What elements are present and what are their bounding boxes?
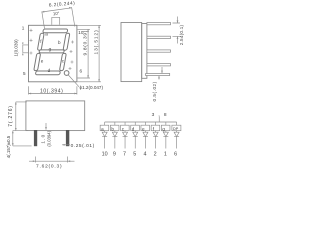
DP diameter callout <box>68 75 103 91</box>
pin pitch dimension 2.54(0.1) <box>173 17 185 46</box>
svg-text:0.5(.02): 0.5(.02) <box>152 81 157 101</box>
svg-text:d: d <box>48 68 51 73</box>
svg-text:e: e <box>41 59 44 64</box>
diode f drop <box>155 122 157 149</box>
diode b symbol <box>112 132 117 136</box>
left dimension 4(.157)+-0.5 <box>6 131 32 159</box>
schematic common connector <box>158 117 160 123</box>
pin thickness dimension 0.25(.01) <box>62 143 95 149</box>
svg-text:b: b <box>58 40 61 45</box>
svg-text:a: a <box>45 32 48 37</box>
svg-text:DP: DP <box>173 127 179 131</box>
right dimension 9.8(0.39) <box>77 29 90 78</box>
top notch box <box>52 17 60 24</box>
diode b drop <box>114 122 116 149</box>
svg-text:1(0.039): 1(0.039) <box>14 39 19 57</box>
right dimension 13(.512) <box>77 25 101 82</box>
diode e drop <box>144 122 146 149</box>
side view pin 1 <box>147 23 171 25</box>
tab thickness dimension 0.5(.02) <box>152 67 163 102</box>
side view pin 2 <box>147 36 171 38</box>
svg-text:7(.276): 7(.276) <box>8 105 14 126</box>
registration cross marks <box>30 29 75 70</box>
segment e <box>34 53 41 70</box>
left dimension 1(0.039) <box>14 39 29 57</box>
segment d <box>35 71 60 75</box>
diode DP symbol <box>174 132 179 136</box>
extension line right (slanted) <box>72 7 75 26</box>
svg-text:b: b <box>111 127 114 132</box>
svg-text:5: 5 <box>23 71 26 76</box>
svg-text:13(.512): 13(.512) <box>93 29 99 54</box>
svg-text:1.0: 1.0 <box>41 134 46 144</box>
diode f symbol <box>153 132 158 136</box>
svg-text:d: d <box>132 127 135 132</box>
segment b <box>63 33 70 50</box>
bottom view body <box>26 101 85 131</box>
diode g symbol <box>163 132 168 136</box>
svg-text:1: 1 <box>22 26 25 31</box>
svg-text:1: 1 <box>164 151 167 157</box>
svg-text:4(.157)±0.5: 4(.157)±0.5 <box>6 135 11 158</box>
svg-text:4: 4 <box>143 151 146 157</box>
diode g drop <box>165 122 167 149</box>
schematic segment boxes and diodes <box>100 122 181 149</box>
diode b box <box>110 125 119 131</box>
segment c <box>59 53 66 70</box>
svg-text:5: 5 <box>133 151 136 157</box>
schematic common bus <box>105 121 177 123</box>
svg-text:10: 10 <box>102 151 108 157</box>
side view pin 3 <box>147 50 171 52</box>
svg-text:g: g <box>49 46 52 51</box>
diode f box <box>151 125 160 131</box>
svg-text:7: 7 <box>123 151 126 157</box>
svg-text:2: 2 <box>154 151 157 157</box>
svg-text:6.2(0.244): 6.2(0.244) <box>49 0 76 7</box>
side view standoff tab <box>146 74 170 76</box>
segment a <box>43 29 68 33</box>
left dimension 7(.276) <box>8 102 28 131</box>
diode e symbol <box>143 132 148 136</box>
diode c drop <box>124 122 126 149</box>
svg-text:g: g <box>162 127 165 132</box>
svg-text:10(.394): 10(.394) <box>40 89 63 95</box>
svg-text:a: a <box>101 127 104 132</box>
diode DP drop <box>176 122 178 149</box>
diode d symbol <box>133 132 138 136</box>
bottom dimension 10(.394) <box>29 86 77 94</box>
svg-text:9.8(0.39): 9.8(0.39) <box>82 30 88 56</box>
svg-text:10°: 10° <box>53 11 60 17</box>
diode DP box <box>172 125 181 131</box>
diode d box <box>131 125 140 131</box>
diode c symbol <box>123 132 128 136</box>
diode a drop <box>104 122 106 149</box>
diode d drop <box>134 122 136 149</box>
epoxy depth dimension 1.0(0.0394) <box>41 123 52 147</box>
bottom view left pin <box>34 130 37 146</box>
svg-text:ϕ1.2(0.047): ϕ1.2(0.047) <box>80 85 104 90</box>
side view pin 4 <box>147 64 171 66</box>
pin spacing dimension 7.62(0.3) <box>29 157 75 170</box>
side view body <box>121 23 142 82</box>
extension line left (slanted) <box>42 11 45 28</box>
diode g box <box>161 125 170 131</box>
svg-text:6: 6 <box>80 69 83 74</box>
bottom view right pin <box>66 130 69 146</box>
digit segments (skewed 10 deg) <box>33 29 71 75</box>
top dimension 6.2(0.244) <box>42 0 76 12</box>
segment g <box>39 50 64 53</box>
diode a box <box>100 125 109 131</box>
svg-text:(0.0394): (0.0394) <box>46 130 51 146</box>
decimal point DP <box>64 71 69 76</box>
side view pin holder strip <box>142 24 147 79</box>
svg-text:0.25(.01): 0.25(.01) <box>71 143 95 149</box>
diode c box <box>121 125 130 131</box>
svg-text:7.62(0.3): 7.62(0.3) <box>36 163 62 169</box>
svg-text:e: e <box>142 127 145 132</box>
svg-text:6: 6 <box>174 151 177 157</box>
diode e box <box>141 125 150 131</box>
front view package outline <box>29 25 77 82</box>
svg-text:2.54(0.1): 2.54(0.1) <box>179 24 184 45</box>
svg-text:9: 9 <box>113 151 116 157</box>
svg-text:3 , 8: 3 , 8 <box>152 112 168 118</box>
segment f <box>37 33 44 50</box>
diode a symbol <box>102 132 107 136</box>
